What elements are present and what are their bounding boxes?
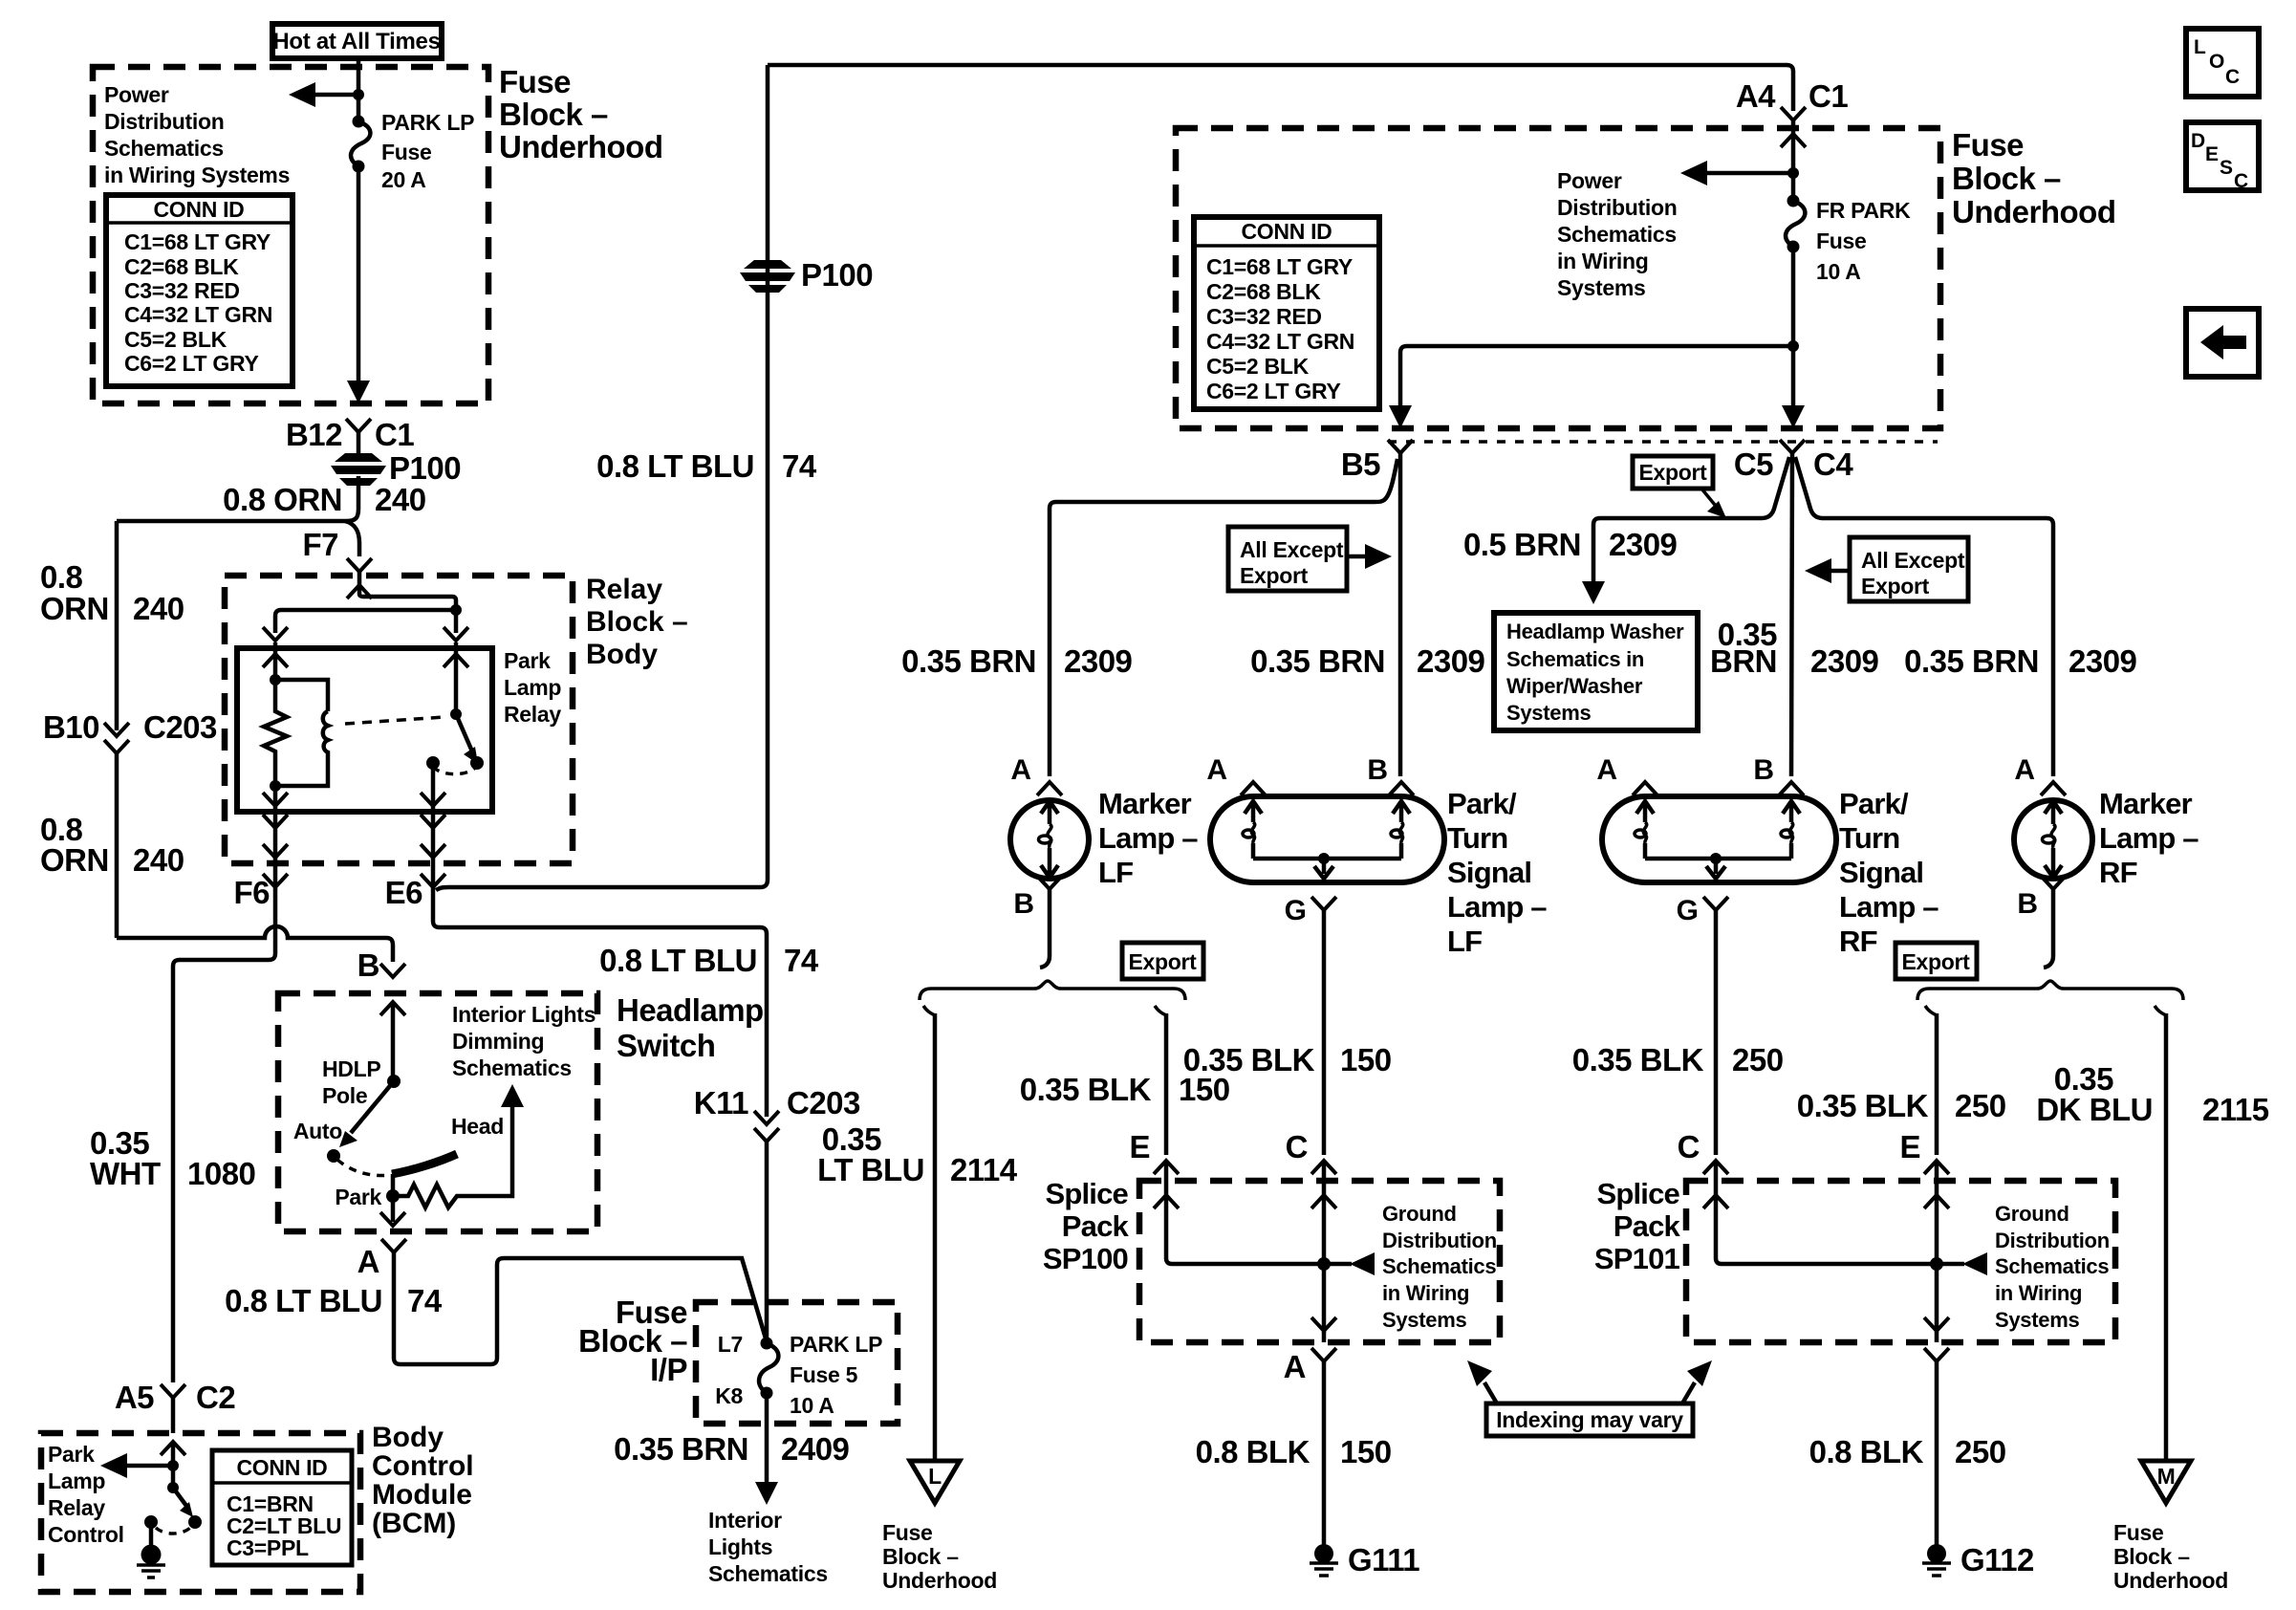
ground G111 [1310, 1542, 1419, 1577]
svg-text:Interior Lights: Interior Lights [452, 1002, 596, 1027]
svg-text:B: B [1013, 888, 1034, 920]
svg-text:G111: G111 [1348, 1542, 1419, 1577]
svg-text:F6: F6 [233, 875, 270, 910]
svg-text:A: A [1284, 1349, 1306, 1384]
switch pivot dot [450, 708, 462, 720]
label 0.8 BLK 150 [1196, 1434, 1392, 1469]
svg-text:Interior: Interior [708, 1508, 782, 1533]
Export box (left split) [1122, 943, 1203, 979]
wire drop to F7 [345, 521, 359, 556]
connector C5/C4 [1734, 440, 1854, 482]
svg-text:Fuse: Fuse [882, 1520, 932, 1545]
svg-text:C4=32 LT GRN: C4=32 LT GRN [124, 302, 272, 327]
svg-text:Marker: Marker [2099, 787, 2193, 820]
svg-text:Pole: Pole [322, 1083, 367, 1108]
label HDLP Pole [322, 1056, 380, 1108]
splice pack SP101 dashed box [1686, 1181, 2115, 1342]
exit arrow bottom [380, 1212, 405, 1226]
svg-text:C2: C2 [196, 1380, 235, 1415]
label 0.8 LT BLU 74 (riser) [596, 448, 817, 484]
wire from F7 entry stepping to switch branch [359, 572, 456, 633]
E wire through splice (RF) [1935, 1161, 1939, 1342]
arrow to park lamp relay control [100, 1453, 173, 1478]
label 0.8 BLK 250 [1809, 1434, 2006, 1469]
svg-text:2309: 2309 [1609, 527, 1678, 562]
svg-text:1080: 1080 [187, 1156, 255, 1191]
thick wiper arm to Head [392, 1154, 457, 1174]
svg-text:C1=68 LT GRY: C1=68 LT GRY [1206, 254, 1353, 279]
connector A [1284, 1348, 1336, 1384]
svg-text:B10: B10 [43, 709, 99, 745]
svg-text:LF: LF [1447, 925, 1482, 958]
svg-text:A: A [2014, 754, 2035, 786]
Park junction dot [386, 1189, 400, 1203]
C wire through splice [1322, 1161, 1327, 1342]
park/turn signal lamp LF [1206, 754, 1444, 1155]
svg-text:A5: A5 [115, 1380, 154, 1415]
svg-text:Lamp –: Lamp – [2099, 821, 2199, 855]
label FR PARK Fuse 10 A [1816, 198, 1911, 284]
exit arrow bottom [1924, 1317, 1949, 1331]
svg-text:G: G [1285, 895, 1307, 926]
svg-text:M: M [2157, 1464, 2176, 1489]
svg-text:0.35 BRN: 0.35 BRN [614, 1431, 748, 1467]
svg-text:0.8 ORN: 0.8 ORN [223, 482, 342, 517]
svg-text:All Except: All Except [1861, 548, 1965, 573]
coil (relay) [275, 711, 328, 786]
junction dot [1317, 1257, 1331, 1271]
svg-text:C203: C203 [143, 709, 217, 745]
svg-text:C2=68 BLK: C2=68 BLK [1206, 279, 1321, 304]
svg-text:74: 74 [784, 943, 819, 978]
wire K11 drop to L7 [765, 1109, 769, 1117]
svg-text:E: E [1899, 1129, 1920, 1164]
label Fuse Block - I/P [578, 1295, 687, 1387]
svg-text:Control: Control [372, 1450, 474, 1482]
label 0.35 BRN 2409 [614, 1431, 849, 1467]
label All Except Export (left) [1228, 527, 1392, 591]
svg-text:Splice: Splice [1596, 1177, 1679, 1210]
marker lamp RF [2014, 754, 2092, 968]
svg-text:Dimming: Dimming [452, 1029, 544, 1054]
label Body Control Module (BCM) [372, 1422, 474, 1539]
wire arrow to power distribution [289, 82, 358, 107]
label 0.35 DK BLU 2115 (M wire) [2036, 1061, 2268, 1127]
label 0.35 BRN 2309 (marker RF) [1904, 643, 2136, 679]
label PARK LP Fuse 20 A [381, 110, 474, 192]
svg-text:(BCM): (BCM) [372, 1508, 456, 1539]
svg-text:2115: 2115 [2202, 1092, 2269, 1127]
svg-text:K8: K8 [715, 1383, 743, 1408]
svg-text:0.35 BLK: 0.35 BLK [1797, 1088, 1929, 1123]
svg-text:Fuse: Fuse [381, 140, 431, 164]
connector A [357, 1239, 406, 1279]
Export box (right split) [1895, 943, 1977, 979]
label 0.35 BLK 150 (G wire) [1183, 1042, 1392, 1077]
svg-text:C4: C4 [1813, 446, 1853, 482]
wire B5 split: diagonal to marker LF rail [1398, 453, 1403, 776]
svg-text:C3=PPL: C3=PPL [227, 1535, 309, 1560]
coil branch pin chevron [263, 627, 288, 641]
switch arm with arrow [456, 714, 478, 764]
svg-text:0.35 BLK: 0.35 BLK [1183, 1042, 1315, 1077]
BCM switch arm [173, 1488, 193, 1517]
Auto contact dot [327, 1149, 340, 1163]
label 0.8 ORN 240 [223, 482, 425, 517]
label 0.8 LT BLU 74 (K11 drop) [599, 943, 819, 978]
label Splice Pack SP101 [1594, 1177, 1681, 1275]
svg-text:Export: Export [1240, 563, 1309, 588]
wire E branch [1164, 1013, 1169, 1155]
svg-text:LF: LF [1098, 856, 1133, 889]
switch common wire [391, 1002, 396, 1081]
connector B10/C203 [43, 709, 217, 753]
fuse block underhood dashed box [93, 67, 488, 403]
svg-text:240: 240 [375, 482, 426, 517]
svg-text:C: C [2234, 170, 2248, 192]
junction dot [167, 1460, 179, 1471]
svg-text:Block –: Block – [499, 97, 608, 132]
label 0.35 BRN 2309 (park/turn LF) [1250, 643, 1484, 679]
svg-text:Block –: Block – [2113, 1544, 2190, 1569]
fuse block underhood dashed box (right) [1176, 128, 1940, 428]
label Park Lamp Relay Control [48, 1442, 124, 1547]
label B [357, 947, 405, 983]
BCM dashed box [41, 1433, 360, 1592]
connector F7 [302, 527, 372, 572]
connector K11/C203 [694, 1085, 860, 1142]
note: power distribution schematics [1557, 168, 1677, 300]
exit arrow C5/C4 [1782, 405, 1805, 428]
svg-text:C2=68 BLK: C2=68 BLK [124, 254, 239, 279]
svg-text:B12: B12 [286, 417, 342, 452]
svg-text:L: L [2194, 36, 2206, 58]
svg-text:Fuse: Fuse [2113, 1520, 2163, 1545]
svg-text:E: E [2205, 143, 2219, 165]
svg-text:74: 74 [782, 448, 817, 484]
fixed contact dot and stem [144, 1515, 158, 1551]
connector B5 [1341, 440, 1413, 482]
svg-text:C: C [1286, 1129, 1308, 1164]
svg-text:0.35 BLK: 0.35 BLK [1572, 1042, 1704, 1077]
svg-text:0.35 BLK: 0.35 BLK [1020, 1072, 1152, 1107]
svg-text:0.35 BRN: 0.35 BRN [901, 643, 1036, 679]
label Park Lamp Relay [504, 648, 561, 727]
connector face fine dashed line [1388, 440, 1938, 444]
dashed actuation link [345, 717, 444, 724]
label 0.35 WHT 1080 [90, 1125, 255, 1191]
svg-text:Auto: Auto [293, 1119, 342, 1143]
branch hook left (L wire) [923, 1006, 935, 1015]
dashed throw arc [156, 1528, 190, 1534]
wire C5/C4 center down to park/turn RF B [1791, 453, 1792, 776]
HDLP pole pivot dot [387, 1075, 401, 1088]
svg-text:150: 150 [1340, 1042, 1392, 1077]
svg-text:Turn: Turn [1839, 821, 1899, 855]
svg-text:20 A: 20 A [381, 167, 426, 192]
svg-text:C6=2 LT GRY: C6=2 LT GRY [124, 351, 258, 376]
entry arrow [161, 1442, 185, 1455]
svg-text:in Wiring: in Wiring [1382, 1281, 1469, 1305]
BCM driver pivot dot [167, 1482, 179, 1493]
svg-text:Signal: Signal [1447, 856, 1531, 889]
svg-text:ORN: ORN [40, 591, 109, 626]
entry arrow [380, 1002, 405, 1015]
svg-text:Distribution: Distribution [1995, 1229, 2110, 1252]
svg-text:0.8: 0.8 [40, 559, 83, 595]
dashed throw arc [337, 1160, 390, 1176]
svg-text:Export: Export [1638, 460, 1707, 485]
svg-text:E: E [1129, 1129, 1150, 1164]
switch branch pin chevron [444, 627, 468, 641]
back arrow box [2186, 309, 2259, 377]
connector E (RF) [1899, 1129, 1949, 1174]
svg-text:Indexing may vary: Indexing may vary [1496, 1407, 1683, 1432]
svg-text:Relay: Relay [48, 1495, 105, 1520]
svg-text:Park: Park [504, 648, 551, 673]
branch hook left (E wire RF) [1925, 1006, 1937, 1015]
svg-text:Turn: Turn [1447, 821, 1507, 855]
svg-text:C1: C1 [375, 417, 414, 452]
label Park/Turn Signal Lamp - LF [1447, 787, 1547, 958]
wire E6 lower rail to K11 drop [433, 887, 767, 1109]
wire diagonal left to headlamp washer stub [1593, 457, 1789, 583]
connector E6 [385, 858, 445, 910]
svg-text:D: D [2191, 130, 2205, 152]
dashed throw arc [433, 767, 475, 774]
arrow to power distribution [1680, 161, 1793, 185]
wire E6 upper rail to vertical riser [436, 65, 768, 890]
svg-text:in Wiring: in Wiring [1557, 249, 1648, 273]
svg-text:S: S [2220, 157, 2233, 179]
svg-text:10 A: 10 A [790, 1393, 834, 1418]
svg-text:Lamp –: Lamp – [1447, 890, 1547, 924]
svg-text:B: B [357, 947, 379, 983]
svg-text:Power: Power [104, 82, 169, 107]
label Marker Lamp - RF [2099, 787, 2199, 889]
label 0.8 LT BLU 74 [225, 1283, 443, 1318]
ground distribution reference arrow [1324, 1252, 1375, 1275]
wire rail to headlamp switch B with hop over F6 wire [117, 926, 393, 962]
labels L7 K8 [715, 1332, 743, 1408]
label 0.8 ORN 240 upper [40, 559, 184, 626]
note: power distribution schematics [104, 82, 290, 187]
exit arrows inside box bottom [263, 793, 288, 806]
svg-text:LT BLU: LT BLU [817, 1152, 924, 1187]
svg-text:Hot at All Times: Hot at All Times [272, 29, 440, 54]
park lamp relay inner box [237, 648, 492, 812]
svg-text:Block –: Block – [586, 606, 688, 638]
svg-text:Systems: Systems [1382, 1308, 1466, 1332]
svg-text:0.35 BRN: 0.35 BRN [1904, 643, 2039, 679]
svg-text:Ground: Ground [1995, 1202, 2069, 1226]
wire fuse down [1791, 247, 1796, 411]
C wire into splice (RF) [1703, 1161, 1937, 1264]
svg-text:C: C [1678, 1129, 1700, 1164]
svg-text:10 A: 10 A [1816, 259, 1861, 284]
junction dot [1787, 167, 1799, 179]
DESC box [2186, 122, 2259, 192]
LOC box [2186, 29, 2259, 97]
svg-text:G112: G112 [1960, 1542, 2034, 1577]
svg-text:Body: Body [372, 1422, 444, 1453]
wire to G111 [1322, 1361, 1327, 1546]
fuse PARK LP Fuse 5 10A [759, 1338, 778, 1400]
label 0.8 ORN 240 lower [40, 812, 184, 878]
svg-text:Schematics: Schematics [708, 1561, 828, 1586]
wire branch to B5 [1389, 346, 1793, 428]
headlamp switch dashed box [278, 993, 597, 1231]
svg-text:74: 74 [407, 1283, 443, 1318]
park/turn signal lamp RF [1596, 754, 1836, 1155]
junction dot B5 branch [1787, 340, 1799, 352]
svg-text:A: A [1596, 754, 1617, 786]
svg-text:0.8 LT BLU: 0.8 LT BLU [596, 448, 754, 484]
label Ground Distribution Schematics in Wiring Systems [1382, 1202, 1497, 1332]
svg-text:C203: C203 [787, 1085, 860, 1120]
CONN ID table left [106, 195, 292, 386]
svg-text:0.5 BRN: 0.5 BRN [1463, 527, 1581, 562]
svg-text:Lights: Lights [708, 1534, 772, 1559]
connector below splice [1924, 1348, 1949, 1361]
svg-text:2309: 2309 [2069, 643, 2137, 679]
switch common wire [454, 642, 459, 714]
ground inside BCM [137, 1545, 165, 1578]
entry arrow [1781, 120, 1806, 201]
label PARK LP Fuse 5 10 A [790, 1332, 882, 1418]
label Park/Turn Signal Lamp - RF [1839, 787, 1939, 958]
svg-text:K11: K11 [694, 1085, 748, 1120]
svg-text:Relay: Relay [586, 574, 662, 605]
svg-text:250: 250 [1955, 1088, 2006, 1123]
connector F6 [233, 858, 288, 910]
svg-text:Distribution: Distribution [104, 109, 224, 134]
svg-text:SP101: SP101 [1594, 1242, 1680, 1275]
wire A down right up right to L7 [394, 1252, 766, 1364]
svg-text:Park/: Park/ [1839, 787, 1909, 820]
split brace left [920, 981, 1185, 1000]
label Headlamp Switch [617, 992, 764, 1063]
CONN ID table BCM [212, 1450, 352, 1565]
label Marker Lamp - LF [1098, 787, 1198, 889]
svg-text:I/P: I/P [650, 1352, 687, 1387]
svg-text:O: O [2209, 51, 2224, 73]
svg-text:B: B [1367, 754, 1388, 786]
svg-text:Park: Park [335, 1185, 381, 1209]
triangle M to fuse block underhood [2141, 1461, 2191, 1503]
wire into BCM [171, 1442, 176, 1488]
svg-text:C5=2 BLK: C5=2 BLK [1206, 354, 1310, 379]
wire park contact [391, 1174, 396, 1222]
wire rail continues [115, 753, 119, 938]
svg-text:P100: P100 [389, 450, 461, 486]
svg-text:CONN ID: CONN ID [153, 197, 244, 222]
svg-text:in Wiring Systems: in Wiring Systems [104, 163, 290, 187]
svg-text:in Wiring: in Wiring [1995, 1281, 2082, 1305]
connector C (RF) [1678, 1129, 1728, 1174]
label Relay Block - Body [586, 574, 688, 670]
svg-text:0.8 BLK: 0.8 BLK [1809, 1434, 1924, 1469]
wire continues to L7 [765, 1142, 769, 1343]
svg-text:Signal: Signal [1839, 856, 1923, 889]
svg-text:Underhood: Underhood [1952, 194, 2115, 229]
svg-text:Control: Control [48, 1522, 124, 1547]
svg-text:Headlamp Washer: Headlamp Washer [1506, 620, 1684, 643]
svg-text:Relay: Relay [504, 702, 561, 727]
svg-text:Fuse: Fuse [1816, 228, 1866, 253]
svg-text:Pack: Pack [1062, 1209, 1130, 1243]
label Ground Distribution Schematics in Wiring Systems [1995, 1202, 2110, 1332]
svg-text:0.8 LT BLU: 0.8 LT BLU [599, 943, 757, 978]
svg-text:A: A [1010, 754, 1031, 786]
wire L branch [933, 1013, 938, 1459]
wire to G112 [1935, 1361, 1939, 1546]
svg-text:Body: Body [586, 639, 658, 670]
svg-text:A4: A4 [1736, 78, 1776, 114]
svg-text:Wiper/Washer: Wiper/Washer [1506, 674, 1643, 698]
svg-text:Schematics: Schematics [1382, 1254, 1496, 1278]
svg-text:SP100: SP100 [1043, 1242, 1128, 1275]
svg-text:CONN ID: CONN ID [1241, 219, 1332, 244]
coil ground-side wire exits box [273, 786, 278, 828]
svg-text:240: 240 [133, 842, 184, 878]
Fuse Block I/P dashed box [696, 1302, 898, 1424]
svg-text:Underhood: Underhood [2113, 1568, 2228, 1593]
svg-text:Marker: Marker [1098, 787, 1192, 820]
wire from Hot box into fuse [357, 58, 361, 121]
arrow into headlamp washer box [1582, 581, 1605, 604]
fuse PARK LP 20A [351, 116, 370, 173]
svg-text:L: L [928, 1464, 942, 1489]
ground distribution reference arrow [1937, 1252, 1987, 1275]
svg-text:Systems: Systems [1995, 1308, 2079, 1332]
label Fuse Block - Underhood (right) [1952, 127, 2115, 229]
fuse FR PARK 10A [1786, 195, 1805, 253]
relay pin chevrons below inner box [263, 815, 288, 828]
label 0.5 BRN 2309 [1463, 527, 1678, 562]
svg-text:DK BLU: DK BLU [2036, 1092, 2153, 1127]
headlamp washer reference box [1494, 613, 1698, 730]
E wire into splice [1154, 1161, 1323, 1264]
connector A4/C1 [1736, 78, 1849, 120]
wire top horizontal to A4 [768, 65, 1793, 111]
svg-text:2309: 2309 [1810, 643, 1879, 679]
svg-text:Headlamp: Headlamp [617, 992, 764, 1028]
Export note box (top) [1633, 456, 1726, 518]
svg-text:A: A [357, 1244, 379, 1279]
svg-text:Splice: Splice [1045, 1177, 1128, 1210]
svg-text:Block –: Block – [1952, 161, 2061, 196]
label Fuse Block - Underhood (M) [2113, 1520, 2228, 1593]
entry arrow into relay block [347, 585, 372, 598]
resistor to interior lights dimming [393, 1107, 512, 1207]
svg-text:2309: 2309 [1064, 643, 1133, 679]
svg-text:Lamp: Lamp [48, 1469, 105, 1493]
label Splice Pack SP100 [1043, 1177, 1130, 1275]
pass-through grommet P100 (upper) [740, 257, 873, 293]
coil-side wire into box [273, 642, 278, 680]
svg-text:Systems: Systems [1557, 275, 1646, 300]
CONN ID table right [1194, 217, 1379, 409]
junction dot relay feed [450, 604, 462, 616]
split brace right [1917, 981, 2183, 1000]
svg-text:HDLP: HDLP [322, 1056, 380, 1081]
wire left rail down [115, 521, 119, 730]
svg-text:Export: Export [1901, 949, 1970, 974]
block exit chevrons at dashed edge [263, 828, 288, 858]
wire M branch [2164, 1013, 2169, 1459]
svg-text:Export: Export [1861, 574, 1930, 598]
